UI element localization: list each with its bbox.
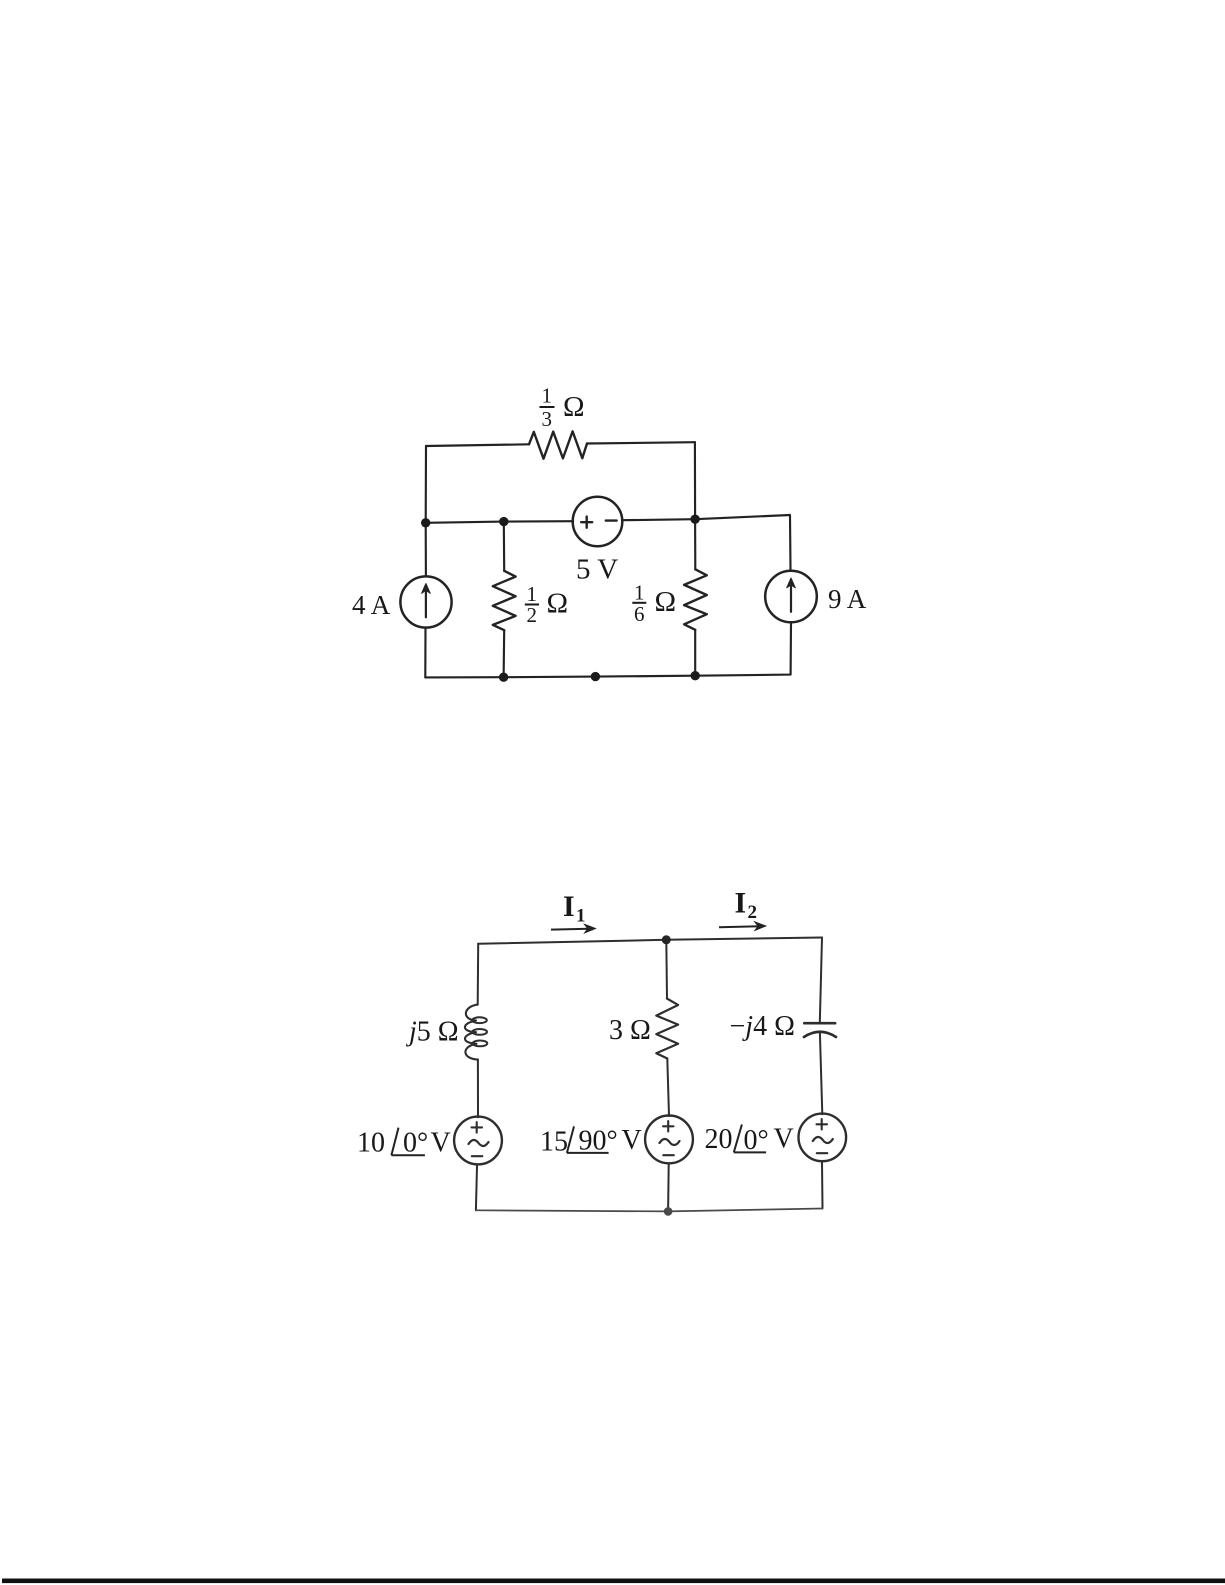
AC source V2 plus sign <box>663 1121 674 1131</box>
label 1/2 ohm <box>525 582 568 627</box>
AC source V3 sine squiggle <box>813 1137 833 1143</box>
resistor R4 3 ohm zigzag <box>656 999 678 1059</box>
resistor R2 1/2 ohm zigzag <box>493 571 516 630</box>
AC source V1 circle <box>454 1117 502 1165</box>
label 15 angle 90 V <box>540 1125 642 1158</box>
wire right branch top (to 9A) <box>695 515 790 570</box>
svg-text:3 Ω: 3 Ω <box>609 1015 651 1046</box>
svg-text:Ω: Ω <box>655 586 677 618</box>
wire left column upper <box>425 446 427 576</box>
svg-text:6: 6 <box>634 602 645 626</box>
svg-text:90°: 90° <box>579 1126 618 1157</box>
arrow current I2 <box>719 922 766 931</box>
wire bottom rail circuit 1 <box>425 676 695 678</box>
wire 1/2 ohm branch upper <box>503 522 506 571</box>
svg-text:V: V <box>431 1128 451 1159</box>
label current I2 <box>735 887 758 924</box>
svg-text:V: V <box>774 1123 794 1154</box>
wire bottom rail circuit 2 <box>476 1209 823 1212</box>
svg-text:2: 2 <box>527 603 538 627</box>
node dot middle rail right <box>690 515 699 524</box>
wire middle rail left of source <box>426 521 574 523</box>
svg-text:0°: 0° <box>403 1128 428 1159</box>
node dot bottom rail circuit 2 <box>664 1207 673 1216</box>
resistor R1 1/3 ohm zigzag <box>529 431 587 458</box>
wire middle column to 3 ohm <box>665 940 668 999</box>
svg-text:5 V: 5 V <box>576 554 618 586</box>
AC source V3 plus sign <box>817 1119 828 1129</box>
node dot bottom rail at 1/2 branch <box>499 673 508 682</box>
current source I2 arrow <box>790 584 792 612</box>
svg-text:Ω: Ω <box>547 588 569 620</box>
wire left column to inductor <box>477 944 480 1005</box>
wire right branch bottom <box>695 623 791 676</box>
svg-text:9 A: 9 A <box>828 584 867 614</box>
inductor L1 loop leaf 1 <box>472 1017 487 1023</box>
svg-text:2: 2 <box>748 902 758 923</box>
wire right column lower <box>694 630 696 676</box>
AC source V3 minus sign <box>817 1152 828 1154</box>
svg-text:10: 10 <box>357 1128 385 1159</box>
AC source V2 minus sign <box>663 1154 674 1156</box>
svg-text:20: 20 <box>705 1124 733 1155</box>
AC source V1 plus sign <box>472 1122 483 1132</box>
inductor L1 loop leaf 2 <box>472 1029 487 1035</box>
wire right column below capacitor <box>820 1033 822 1114</box>
wire middle rail right of source <box>622 519 695 520</box>
svg-text:0°: 0° <box>744 1125 769 1156</box>
arrow current I1 <box>551 924 595 933</box>
svg-text:−j4 Ω: −j4 Ω <box>730 1011 795 1042</box>
node dot middle rail at 1/2 branch <box>499 517 508 526</box>
voltage source U1 minus sign <box>606 519 617 521</box>
AC source V1 minus sign <box>472 1155 483 1157</box>
label current I1 <box>563 890 586 927</box>
label 10 angle 0 V <box>357 1128 451 1159</box>
svg-text:3: 3 <box>542 407 553 431</box>
inductor L1 loop leaf 3 <box>473 1041 488 1047</box>
wire middle column below resistor <box>667 1059 669 1117</box>
wire top rail circuit 2 <box>478 938 822 944</box>
wire 1/2 ohm branch lower <box>503 630 506 677</box>
label 1/3 ohm <box>540 384 585 432</box>
node dot top rail circuit 2 <box>662 935 671 944</box>
svg-text:1: 1 <box>542 384 553 408</box>
wire left column lower <box>424 628 426 677</box>
current source I1 4A circle <box>400 576 451 627</box>
wire top rail right segment <box>587 442 695 443</box>
AC source V2 circle <box>645 1116 693 1164</box>
label 1/6 ohm <box>632 580 676 626</box>
current source I1 arrow <box>425 589 427 617</box>
wire left column below source <box>476 1166 477 1211</box>
node dot bottom rail middle <box>591 672 600 681</box>
wire right column upper (to junction and 1/6 resistor) <box>694 442 697 569</box>
voltage source U1 plus sign <box>581 517 592 528</box>
wire right column to capacitor <box>820 938 822 1024</box>
svg-text:1: 1 <box>634 580 645 604</box>
svg-text:V: V <box>622 1125 642 1156</box>
svg-text:4 A: 4 A <box>352 590 391 620</box>
AC source V2 sine squiggle <box>660 1139 680 1145</box>
resistor R3 1/6 ohm zigzag <box>684 569 707 630</box>
page bottom rule <box>2 1579 1225 1584</box>
capacitor C1 -j4 ohm top plate <box>804 1022 835 1025</box>
inductor L1 j5 ohm coil <box>465 1005 478 1060</box>
node dot bottom rail right <box>691 671 700 680</box>
label 20 angle 0 V <box>705 1123 794 1156</box>
AC source V1 sine squiggle <box>469 1140 489 1146</box>
wire top rail circuit 1 <box>426 444 529 446</box>
svg-text:1: 1 <box>576 906 586 927</box>
current source I2 9A circle <box>765 571 817 623</box>
wire right column below source <box>821 1162 824 1209</box>
wire left column below inductor <box>477 1060 479 1118</box>
svg-text:j5 Ω: j5 Ω <box>406 1017 459 1048</box>
AC source V3 circle <box>799 1114 847 1162</box>
voltage source U1 5V circle <box>573 497 623 547</box>
svg-text:15: 15 <box>540 1127 568 1158</box>
node dot middle rail left <box>421 518 430 527</box>
wire middle column below source <box>667 1164 670 1211</box>
svg-text:Ω: Ω <box>563 391 585 423</box>
svg-text:I: I <box>563 890 575 923</box>
capacitor C1 bottom plate <box>804 1032 836 1037</box>
svg-text:I: I <box>735 887 747 920</box>
